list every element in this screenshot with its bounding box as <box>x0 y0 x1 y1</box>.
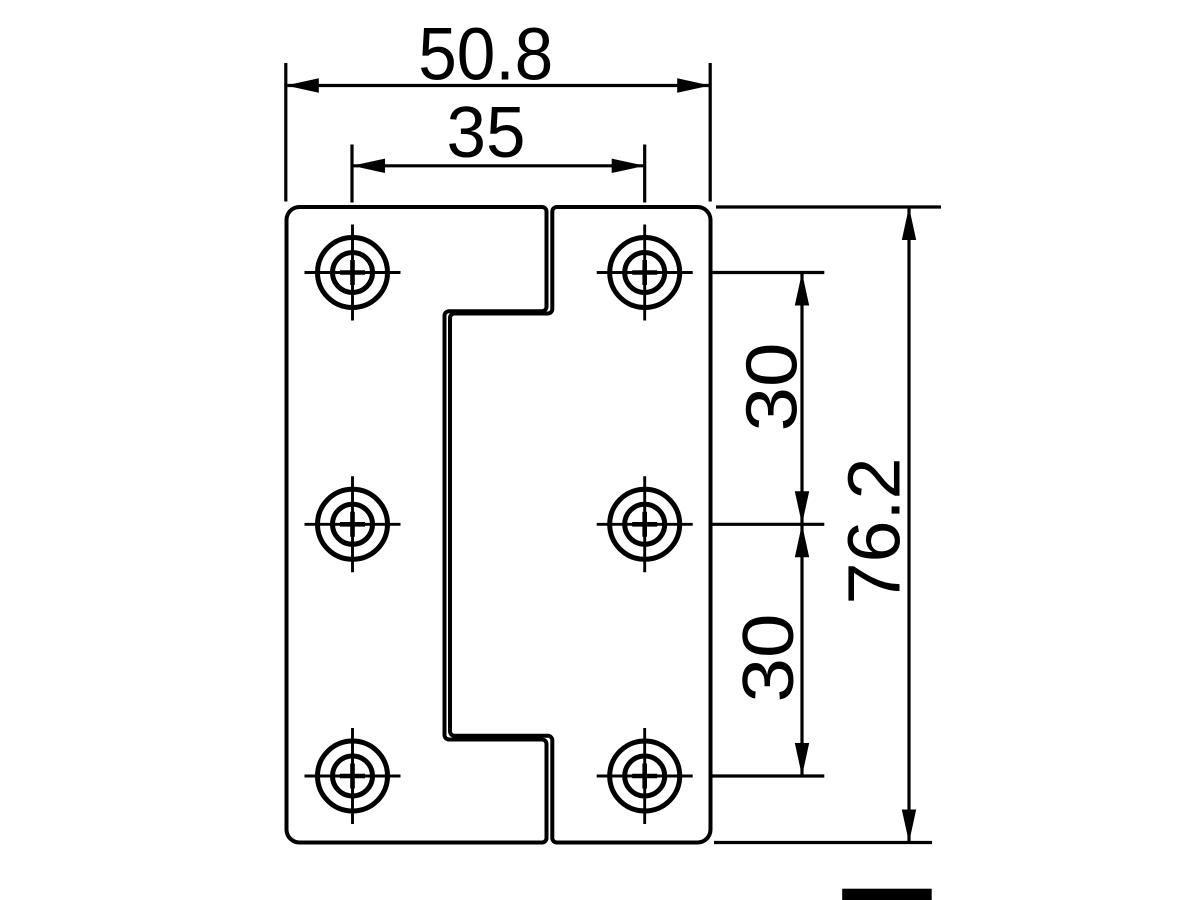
screw hole H4 (mid-right) <box>597 476 693 572</box>
svg-text:30: 30 <box>729 614 809 703</box>
screw hole H5 (bottom-left) <box>305 728 401 824</box>
dimension line 50.8 <box>286 84 710 87</box>
arrowhead 35 right <box>612 159 645 173</box>
dimension line 35 <box>352 164 645 167</box>
arrowhead 76.2 bottom <box>902 810 916 843</box>
dimension line 76.2 <box>907 207 910 843</box>
extension line hole row 3 <box>712 774 824 777</box>
arrowhead 30 top down <box>795 491 809 524</box>
extension line hole row 1 <box>711 271 824 274</box>
screw hole H6 (bottom-right) <box>597 728 693 824</box>
extension line right (50.8) <box>709 63 712 202</box>
svg-text:35: 35 <box>447 93 526 173</box>
arrowhead 30 bottom up <box>795 524 809 557</box>
left hinge leaf outline <box>287 207 547 843</box>
svg-text:50.8: 50.8 <box>418 12 553 95</box>
arrowhead 35 left <box>352 159 385 173</box>
arrowhead 50.8 right <box>677 78 710 92</box>
screw hole H1 (top-left) <box>305 225 401 321</box>
extension line left (35) <box>350 145 353 203</box>
screw hole H3 (mid-left) <box>305 476 401 572</box>
right hinge leaf outline with tab <box>450 207 711 843</box>
svg-text:76.2: 76.2 <box>833 458 916 605</box>
dimension line 30 bottom <box>800 524 803 776</box>
arrowhead 76.2 top <box>902 207 916 240</box>
arrowhead 30 bottom down <box>795 743 809 776</box>
dimension line 30 top <box>800 273 803 525</box>
extension line right (35) <box>643 145 646 203</box>
svg-text:30: 30 <box>733 343 813 432</box>
black watermark bar bottom-right <box>842 889 932 900</box>
extension line left (50.8) <box>284 63 287 202</box>
extension line bottom (76.2) <box>714 841 932 844</box>
extension line top (76.2) <box>716 205 941 208</box>
extension line hole row 2 <box>712 523 825 526</box>
screw hole H2 (top-right) <box>597 225 693 321</box>
arrowhead 50.8 left <box>286 78 319 92</box>
arrowhead 30 top up <box>795 273 809 306</box>
